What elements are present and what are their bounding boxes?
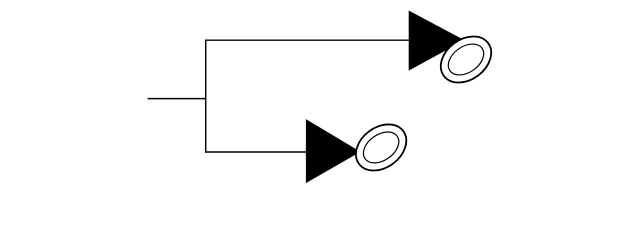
wire top branch <box>205 39 410 41</box>
ring symbol bottom <box>347 115 415 180</box>
wire input stub <box>148 98 207 100</box>
ring symbol top <box>432 27 500 92</box>
buffer triangle top <box>409 11 463 70</box>
buffer triangle bottom <box>306 120 359 182</box>
wire bottom branch <box>205 151 307 153</box>
wire vertical bus <box>205 40 207 153</box>
